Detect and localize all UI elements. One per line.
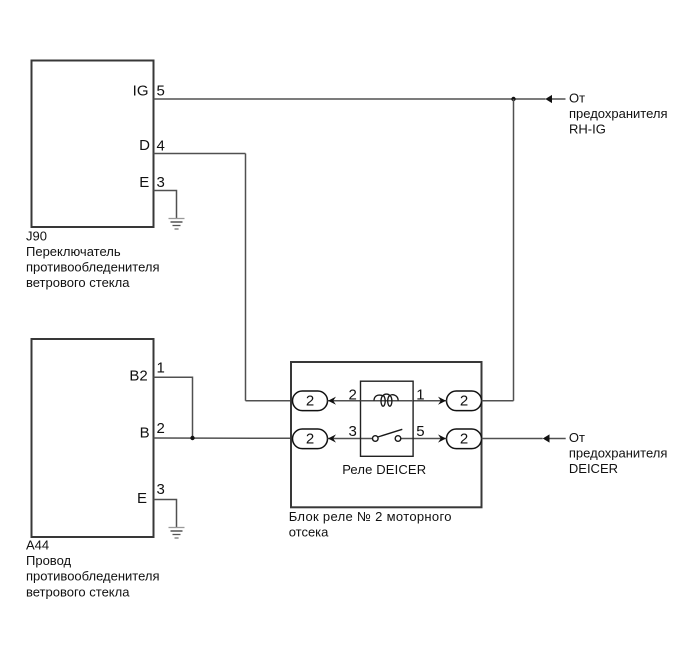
svg-text:B: B <box>140 425 150 442</box>
connector box J90 <box>32 61 154 228</box>
relay switch <box>373 429 403 441</box>
connector box A44 <box>32 339 154 537</box>
wire stub right of RH-IG arrow <box>552 98 566 100</box>
svg-text:Блок реле № 2 моторного: Блок реле № 2 моторного <box>289 509 452 524</box>
wire junction to RH-IG arrow <box>514 98 546 100</box>
wire IG to junction <box>154 98 514 100</box>
arrow into right bottom oval <box>438 434 446 442</box>
svg-text:2: 2 <box>157 420 165 437</box>
connector oval 2 (right top) <box>447 391 482 411</box>
wire stub right of DEICER arrow <box>550 438 566 440</box>
wire coil row right <box>413 400 447 402</box>
svg-text:отсека: отсека <box>289 524 329 539</box>
svg-text:E: E <box>139 174 149 191</box>
wire B2 pin <box>154 377 193 438</box>
relay block box <box>291 362 482 507</box>
svg-text:От: От <box>569 90 585 105</box>
svg-text:5: 5 <box>416 423 424 440</box>
svg-text:2: 2 <box>306 392 314 409</box>
wire vertical from junction down <box>513 99 515 401</box>
wire right bottom oval to DEICER arrow <box>482 438 543 440</box>
svg-text:IG: IG <box>133 83 149 100</box>
svg-text:B2: B2 <box>129 367 147 384</box>
svg-text:Переключатель: Переключатель <box>26 244 121 259</box>
ground (J90) <box>169 219 185 230</box>
svg-text:2: 2 <box>348 387 356 404</box>
arrow into left top oval <box>328 397 336 405</box>
svg-text:предохранителя: предохранителя <box>569 445 668 460</box>
node junction RH-IG <box>511 97 515 101</box>
ground (A44) <box>169 528 185 539</box>
svg-text:ветрового стекла: ветрового стекла <box>26 584 130 599</box>
wire coil row left <box>328 400 361 402</box>
svg-text:Реле DEICER: Реле DEICER <box>342 462 426 477</box>
wire D into relay block <box>246 400 293 402</box>
wire E pin (J90) <box>154 191 177 219</box>
node junction B <box>190 436 194 440</box>
wire right top oval to vertical <box>482 400 514 402</box>
svg-text:противообледенителя: противообледенителя <box>26 259 160 274</box>
svg-text:A44: A44 <box>26 537 49 552</box>
svg-text:Провод: Провод <box>26 553 72 568</box>
svg-text:E: E <box>137 490 147 507</box>
svg-text:противообледенителя: противообледенителя <box>26 569 160 584</box>
svg-text:ветрового стекла: ветрового стекла <box>26 275 130 290</box>
connector oval 2 (left bottom) <box>293 429 328 449</box>
wire B pin to relay block <box>154 437 293 439</box>
svg-text:DEICER: DEICER <box>569 461 618 476</box>
wire D vertical down <box>245 154 247 401</box>
svg-text:3: 3 <box>157 481 165 498</box>
svg-text:2: 2 <box>306 430 314 447</box>
svg-text:J90: J90 <box>26 229 47 244</box>
svg-text:D: D <box>139 137 150 154</box>
arrow into right top oval <box>438 397 446 405</box>
arrow into left bottom oval <box>328 434 336 442</box>
svg-text:1: 1 <box>157 359 165 376</box>
wire E pin (A44) <box>154 500 177 528</box>
svg-text:предохранителя: предохранителя <box>569 106 668 121</box>
arrow from fuse RH-IG <box>545 95 552 103</box>
wire switch row right <box>401 438 447 440</box>
relay coil <box>374 394 398 406</box>
svg-text:2: 2 <box>460 392 468 409</box>
connector oval 2 (right bottom) <box>447 429 482 449</box>
relay inner box <box>361 381 414 456</box>
wire D pin horizontal <box>154 153 246 155</box>
svg-text:От: От <box>569 430 585 445</box>
svg-text:2: 2 <box>460 430 468 447</box>
svg-text:RH-IG: RH-IG <box>569 121 606 136</box>
svg-text:5: 5 <box>157 83 165 100</box>
svg-text:3: 3 <box>157 174 165 191</box>
wire through coil <box>361 400 414 402</box>
svg-text:3: 3 <box>348 423 356 440</box>
svg-text:1: 1 <box>416 387 424 404</box>
arrow from fuse DEICER <box>543 434 550 442</box>
wire switch row left <box>328 438 373 440</box>
svg-text:4: 4 <box>157 137 165 154</box>
connector oval 2 (left top) <box>293 391 328 411</box>
